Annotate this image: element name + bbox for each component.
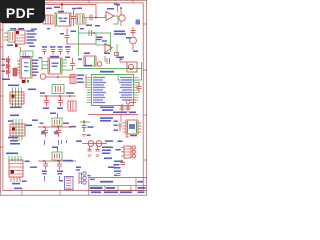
CLUSTER-O serial header — [80, 112, 138, 137]
diode D3 — [7, 58, 11, 62]
CLUSTER-A top-left power input — [43, 3, 96, 26]
wire xtal rail — [40, 95, 76, 97]
label U6 name — [50, 56, 59, 58]
resistor R5 — [57, 113, 59, 118]
label VIN — [46, 8, 52, 10]
wire green L — [80, 120, 90, 132]
label below1 — [8, 137, 18, 139]
label net name GREEN — [84, 65, 92, 67]
diode LED6 — [83, 181, 86, 184]
wire left border tick2 — [0, 95, 3, 97]
buzzer LS1 body — [127, 62, 137, 72]
capacitor C7 — [50, 46, 56, 54]
wire Q1 emitter — [120, 21, 122, 26]
label left annotations — [77, 75, 84, 83]
diode LED4 — [83, 172, 86, 175]
label rows — [114, 171, 121, 172]
label far right — [32, 120, 38, 121]
connector P4 body — [124, 146, 131, 158]
capacitor C34 — [121, 163, 126, 165]
wire bottom border tick — [21, 191, 23, 196]
label row1 — [114, 31, 125, 33]
label U1 — [58, 11, 64, 13]
CLUSTER-K buzzer — [116, 57, 142, 81]
wire LED rail — [8, 56, 10, 78]
label bottom rows — [114, 161, 124, 169]
wire left red feed — [85, 74, 87, 88]
transistor Q4 — [40, 74, 46, 80]
transistor Q2 cluster left — [114, 4, 118, 13]
label top — [52, 147, 58, 149]
label left text — [7, 45, 13, 47]
wire green vert2 — [95, 33, 97, 45]
resistor R4 block — [13, 68, 17, 76]
ground L2 — [96, 155, 100, 157]
wire green speck — [121, 160, 123, 163]
capacitor C32 below — [88, 147, 92, 152]
node red dot — [83, 121, 85, 123]
CLUSTER-I driver U6 — [39, 56, 77, 84]
CLUSTER-E mid capacitor bank — [42, 28, 76, 55]
wire red horiz — [76, 43, 96, 45]
op-amp U1 regulator body — [55, 13, 71, 26]
wire green stub down — [85, 18, 87, 26]
label R:1 — [138, 181, 144, 183]
label values below2b — [58, 173, 63, 174]
node dot x3 — [69, 95, 71, 97]
label U3 pin names column — [27, 30, 37, 43]
wire outer border rect — [0, 0, 146, 195]
CLUSTER-B top-middle filter — [76, 5, 114, 27]
label U5 name — [22, 56, 30, 58]
capacitor C17 — [120, 104, 125, 112]
label left of J4 — [59, 180, 63, 181]
capacitor C20 — [58, 96, 63, 106]
capacitor inside green box — [23, 52, 26, 55]
label below2 — [57, 108, 63, 110]
label above line2 — [129, 112, 136, 114]
crystal Y3 green box — [52, 152, 62, 160]
wire buzzer feed — [120, 58, 127, 62]
label K1 — [78, 59, 82, 61]
label U2 right pin names — [119, 77, 132, 101]
label below1 — [12, 183, 20, 185]
wire U2 left pin stubs — [87, 78, 92, 103]
label top — [6, 153, 18, 155]
CLUSTER-R LED indicator block — [114, 141, 136, 169]
connector J4 blue block — [65, 177, 74, 190]
wire title block divider revision — [135, 178, 137, 191]
label Q1 — [116, 4, 120, 6]
wire green stubs — [121, 148, 124, 157]
wire top border tick — [132, 0, 134, 3]
diode D4 — [7, 64, 11, 68]
transistor opto green body — [8, 31, 15, 43]
resistor R6 — [57, 147, 59, 152]
label right — [25, 161, 30, 163]
wire feed vertical — [120, 115, 122, 123]
capacitor C5 vertical — [65, 28, 70, 44]
capacitor C26 — [57, 161, 62, 170]
ground U7 — [126, 134, 130, 137]
wire green return — [118, 62, 142, 80]
capacitor C31 left — [118, 124, 122, 131]
relay K1 box — [84, 56, 96, 66]
label top2 — [8, 120, 13, 122]
wire right border tick2 — [143, 69, 147, 71]
label Date — [91, 191, 101, 193]
capacitor C2 on net — [90, 15, 92, 21]
label right — [28, 89, 36, 91]
label C5 value — [60, 33, 64, 34]
label plus — [121, 59, 123, 60]
node P3 pin1 mark — [11, 170, 15, 174]
wire comb legs below — [11, 177, 20, 182]
label below2 — [54, 131, 58, 135]
capacitor C23 — [56, 127, 61, 137]
ground stub1 — [45, 140, 67, 145]
node dot x3 — [69, 126, 71, 128]
TITLE-BLOCK — [89, 178, 147, 195]
node red blob left — [115, 53, 119, 56]
diode opto emitter — [10, 32, 13, 41]
label left — [40, 92, 45, 94]
connector P2 hatch — [10, 127, 25, 133]
label right — [25, 125, 32, 127]
wire green horiz2 — [96, 44, 111, 46]
capacitor C1 — [71, 10, 76, 26]
ground C30 — [82, 135, 86, 137]
label far right — [30, 167, 37, 168]
wire title block row line1 — [89, 185, 147, 187]
label right — [105, 140, 113, 142]
label left — [40, 123, 44, 124]
CLUSTER-F green net area — [76, 25, 113, 56]
label Sheet — [120, 191, 132, 193]
wire green horiz1 — [79, 32, 112, 34]
wire bottom rail — [46, 76, 76, 78]
wire long red line — [88, 114, 138, 116]
node dot net — [93, 32, 95, 34]
label net right — [63, 160, 73, 162]
connector P2 body — [10, 124, 25, 136]
label top — [118, 141, 123, 143]
capacitor C33 below — [96, 147, 100, 152]
node dot x3 — [69, 160, 71, 162]
wire regulator input drop — [61, 5, 63, 14]
label C5 — [71, 31, 77, 33]
label net right — [71, 126, 76, 127]
svg-text:PDF: PDF — [6, 5, 35, 21]
label Q3 value — [133, 51, 138, 53]
label right — [66, 92, 74, 94]
diode D5 — [7, 70, 11, 74]
ground stubs — [45, 176, 60, 181]
node dot x2 — [57, 160, 59, 162]
capacitor C6 — [42, 46, 47, 54]
node dot rail1 — [57, 76, 59, 78]
wire VCC rail extension — [95, 5, 97, 18]
wire U7 left pins — [123, 123, 127, 132]
wire title block divider logo — [104, 186, 106, 191]
label row2 — [114, 33, 126, 35]
CLUSTER-T above title — [108, 167, 121, 176]
wire left border tick — [0, 46, 3, 48]
wire down to green box — [20, 47, 22, 51]
crystal Y1 green box — [52, 85, 64, 94]
capacitor C14 — [107, 58, 110, 64]
connector J3 comb — [68, 101, 76, 111]
diode LED3 — [132, 154, 135, 157]
wire green bus vertical — [78, 25, 80, 56]
label C2 — [86, 25, 92, 27]
node dot x1 — [43, 126, 45, 128]
capacitor C8 — [58, 46, 63, 54]
capacitor C9 — [65, 46, 71, 54]
capacitor C10 on net — [89, 30, 92, 36]
node P2 pin1 mark — [12, 128, 15, 131]
label above1 — [10, 28, 16, 30]
crystal Y2 red element — [55, 120, 60, 125]
wire green stub — [104, 56, 106, 62]
label right annotation2 — [31, 29, 37, 30]
node dot x2 — [59, 95, 61, 97]
connector P1 hatch — [10, 95, 24, 101]
label D labels — [2, 59, 6, 72]
label below1 — [43, 108, 49, 110]
wire Q3 emitter — [132, 44, 134, 50]
wire title block row line2 — [89, 189, 147, 191]
wire title block outline — [89, 178, 147, 195]
power port F2 — [136, 20, 141, 25]
connector J2 comb — [70, 75, 76, 84]
label Rev — [138, 187, 146, 189]
CLUSTER-G right transistor stage — [114, 27, 138, 56]
crystal Y2 green box — [52, 118, 62, 126]
diode LED5 — [83, 176, 86, 179]
wire left border tick0 — [0, 29, 3, 31]
label right annotation — [29, 46, 35, 47]
node Q1 top — [120, 7, 122, 9]
label Size A4 — [106, 187, 115, 189]
label above2 — [18, 28, 24, 30]
label net VOUT — [107, 8, 114, 10]
label R1 — [95, 25, 100, 27]
node dark blob — [22, 80, 26, 83]
wire xtal2 rail — [38, 126, 76, 128]
label top — [8, 85, 19, 87]
node J1 junction — [61, 3, 63, 5]
op-amp U5 body — [20, 58, 32, 78]
label VCC — [54, 7, 60, 9]
label below — [10, 107, 21, 109]
crystal Y1 red element — [56, 86, 61, 92]
CRYSTAL-BLOCK-2 — [38, 113, 76, 146]
node dot rail1 — [8, 62, 10, 64]
capacitor C25 — [43, 161, 48, 170]
node circle bottom — [126, 100, 130, 104]
wire Q2 vertical — [117, 5, 119, 12]
wire green opamp out — [113, 16, 118, 24]
op-amp U4B triangle — [105, 44, 113, 53]
capacitor C13 — [70, 58, 75, 70]
CLUSTER-C top-right comparator — [104, 4, 140, 27]
label date value — [104, 191, 118, 193]
connector P3 body — [9, 160, 23, 177]
label top2 — [76, 169, 80, 170]
wire right border tick — [143, 23, 147, 25]
ground U5 bottom — [22, 78, 25, 82]
label above line — [113, 112, 127, 114]
connector P1 body — [10, 92, 24, 104]
wire top border tick2 — [88, 0, 90, 3]
wire VCC rail top — [44, 4, 96, 6]
label row2 — [102, 109, 113, 111]
wire Q3 collector — [132, 27, 134, 37]
label U2 name — [100, 71, 114, 73]
wire title block divider number — [130, 186, 132, 191]
label green speck — [27, 80, 29, 83]
label below row1 — [100, 117, 113, 119]
label C22 — [97, 37, 103, 39]
label below2 — [22, 181, 27, 183]
CONNECTOR-STACK-3 — [6, 153, 37, 190]
crystal Y3 red element — [55, 154, 60, 159]
label Title — [90, 179, 95, 180]
label left — [116, 149, 121, 151]
label U2 left pin names — [93, 77, 106, 103]
label EasyEDA logo — [90, 187, 103, 189]
label row1 — [100, 107, 114, 109]
capacitor C12 — [131, 31, 136, 33]
label values below2 — [57, 171, 63, 173]
capacitor C30 — [82, 126, 87, 133]
node U3 pin1 dot — [16, 31, 19, 34]
CLUSTER-Q inductor chain — [76, 140, 113, 159]
wire inner border rect — [3, 3, 143, 191]
wire to right — [67, 43, 76, 45]
node junction net1 — [95, 17, 97, 19]
diode LED1 — [132, 146, 135, 149]
label bottom1 — [84, 53, 90, 55]
label bottom2 — [104, 53, 110, 55]
label LS1 — [116, 57, 124, 59]
wire left border tick3 — [0, 146, 3, 148]
wire Q1 collector — [120, 8, 122, 15]
label VCC2 — [77, 8, 82, 10]
wire title block divider size — [117, 186, 119, 191]
diode LED2 — [132, 150, 135, 153]
label below1 — [41, 131, 45, 135]
wire U5 left pins — [17, 61, 20, 73]
label below2 — [10, 140, 18, 142]
connector P3 hatch — [9, 164, 23, 175]
label C30 — [88, 126, 94, 128]
CONNECTOR-STACK-1 — [8, 85, 36, 109]
wire green pins vertical — [9, 156, 21, 162]
diode D1 bridge block — [43, 15, 53, 24]
label below ground — [87, 135, 91, 136]
label R3 — [102, 40, 107, 41]
label right rows — [102, 147, 113, 160]
label C22 value — [97, 39, 102, 40]
label top — [50, 113, 56, 115]
label net name — [80, 28, 84, 29]
wire green vert3 — [110, 33, 112, 52]
CLUSTER-L MCU U2 — [77, 71, 142, 106]
inductor L1 — [88, 141, 94, 147]
inductor L2 — [96, 141, 102, 147]
wire U2 right pin stubs — [134, 78, 139, 101]
BELOW-MCU labels — [100, 104, 131, 112]
transistor Q3 — [130, 37, 137, 44]
capacitor C21 — [43, 127, 48, 137]
op-amp U2 MCU body — [92, 75, 134, 106]
label right speck — [88, 175, 91, 176]
node dot rail2 — [8, 68, 10, 70]
CRYSTAL-BLOCK-3 — [38, 147, 76, 190]
label values below1b — [43, 173, 47, 174]
CRYSTAL-BLOCK-1 — [40, 85, 76, 112]
CLUSTER-P IC U7 — [114, 115, 142, 138]
label below row2 — [100, 120, 111, 122]
node P1 pin1 mark — [12, 95, 15, 98]
wire green pins vertical — [13, 119, 22, 141]
label right — [63, 123, 69, 124]
wire bottom border tick2 — [59, 191, 61, 196]
op-amp U3 body — [15, 30, 25, 44]
label below3 — [10, 143, 20, 145]
wire U3 hatch — [15, 35, 25, 41]
wire green net1 — [84, 17, 106, 19]
ground L1 — [88, 155, 92, 157]
label below U7 — [130, 135, 137, 137]
node dark dot2 — [15, 45, 18, 48]
wire U3 left pins — [4, 33, 8, 40]
label +C — [108, 167, 115, 169]
wire green opamp in — [104, 15, 106, 17]
CONNECTOR-STACK-2 — [8, 115, 38, 145]
label Q3 — [126, 37, 131, 39]
node dot x1 — [45, 95, 47, 97]
label C13 — [65, 57, 70, 59]
node dot x2 — [57, 126, 59, 128]
label C1 value — [72, 8, 77, 10]
connector P5 comb — [79, 172, 82, 184]
label bottom text — [2, 79, 10, 81]
wire green drop — [116, 44, 118, 56]
capacitor C16 bottom right — [130, 100, 136, 103]
label left specks — [114, 121, 119, 131]
label U5 right pin names — [33, 60, 39, 76]
node dot x1 — [43, 160, 45, 162]
node subcircuit box green — [20, 51, 33, 57]
label LED dice — [100, 181, 113, 183]
node dot rail2 — [69, 76, 71, 78]
capacitor C19 — [44, 96, 49, 106]
wire green long net — [76, 68, 142, 70]
capacitor C15 right of MCU — [137, 82, 142, 93]
wire U7 right pins — [138, 123, 142, 132]
label sheet value — [138, 191, 145, 193]
op-amp U4A triangle — [106, 12, 114, 21]
CLUSTER-D left IC U3 optocoupler — [4, 28, 37, 57]
label misc — [39, 57, 43, 58]
wire green pins vertical — [13, 88, 22, 109]
label small top — [47, 28, 50, 29]
wire U6 green right pins — [62, 60, 72, 70]
label below — [114, 175, 117, 176]
